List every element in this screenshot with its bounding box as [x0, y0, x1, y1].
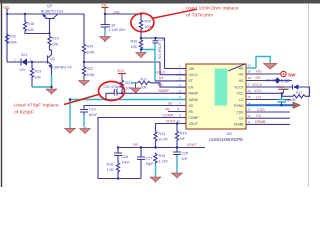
svg-text:11: 11: [248, 120, 251, 124]
svg-text:HB: HB: [239, 66, 244, 70]
svg-text:15: 15: [248, 95, 252, 99]
svg-text:Q2: Q2: [50, 57, 55, 61]
svg-text:VCC: VCC: [276, 85, 284, 89]
svg-text:of 787Kohm: of 787Kohm: [186, 13, 213, 19]
svg-text:CSG: CSG: [257, 108, 265, 112]
svg-text:R20: R20: [9, 35, 16, 39]
svg-text:10nF: 10nF: [122, 161, 131, 165]
svg-text:10K: 10K: [131, 45, 138, 49]
svg-text:EN: EN: [158, 83, 163, 87]
svg-text:VIN: VIN: [189, 67, 195, 71]
svg-text:C25: C25: [182, 152, 189, 156]
svg-text:BC857CLT1G: BC857CLT1G: [41, 10, 64, 14]
svg-text:10.7K: 10.7K: [159, 138, 169, 142]
svg-text:R30: R30: [131, 40, 138, 44]
svg-text:R15: R15: [159, 154, 166, 158]
svg-text:RAMP: RAMP: [159, 89, 170, 93]
svg-text:R29: R29: [145, 20, 152, 24]
svg-text:SW: SW: [288, 72, 296, 77]
svg-text:HO: HO: [239, 72, 244, 76]
svg-text:COMP: COMP: [163, 113, 174, 117]
svg-text:VOUT: VOUT: [166, 119, 177, 123]
svg-text:1nF: 1nF: [182, 157, 189, 161]
svg-text:17: 17: [248, 83, 252, 87]
svg-text:20: 20: [248, 64, 252, 68]
svg-text:C26: C26: [122, 155, 129, 159]
svg-text:of 820pF: of 820pF: [14, 109, 34, 115]
svg-text:Used 470pF inplace: Used 470pF inplace: [14, 103, 59, 109]
svg-text:VCCX: VCCX: [234, 85, 244, 89]
svg-text:AGND: AGND: [189, 98, 199, 102]
svg-text:12: 12: [248, 114, 252, 118]
svg-text:D8 BAS16-T1F: D8 BAS16-T1F: [266, 78, 291, 82]
svg-text:10K: 10K: [52, 43, 59, 47]
svg-text:UVLO: UVLO: [156, 70, 166, 74]
svg-text:R19: R19: [52, 37, 59, 41]
svg-text:R17: R17: [296, 91, 303, 95]
svg-text:CSG: CSG: [236, 110, 244, 114]
svg-text:Used 100KOhm inplace: Used 100KOhm inplace: [186, 5, 239, 11]
svg-text:82nF: 82nF: [89, 113, 98, 117]
svg-text:LM25116MHN0PB: LM25116MHN0PB: [209, 137, 243, 142]
svg-text:VOUT: VOUT: [187, 143, 198, 147]
svg-text:VOUT: VOUT: [189, 122, 198, 126]
svg-text:18: 18: [248, 76, 252, 80]
svg-text:C27: C27: [146, 157, 153, 161]
svg-text:RT: RT: [189, 79, 193, 83]
svg-text:R23: R23: [35, 70, 42, 74]
svg-text:EN: EN: [189, 85, 194, 89]
svg-text:CS: CS: [239, 117, 244, 121]
svg-text:R24: R24: [87, 45, 94, 49]
svg-text:10K: 10K: [141, 85, 148, 89]
svg-text:Z01: Z01: [21, 53, 27, 57]
svg-text:RT: RT: [159, 77, 165, 81]
svg-text:C22 470pF: C22 470pF: [104, 85, 123, 89]
svg-text:1uF: 1uF: [285, 98, 292, 102]
svg-text:FB: FB: [165, 107, 170, 111]
svg-text:COMP: COMP: [189, 116, 200, 120]
svg-text:R14: R14: [180, 132, 187, 136]
svg-text:SS: SS: [168, 101, 173, 105]
svg-text:R16: R16: [107, 163, 114, 167]
svg-text:19: 19: [248, 70, 252, 74]
svg-text:RAMP: RAMP: [189, 92, 199, 96]
svg-text:LO: LO: [239, 98, 244, 102]
svg-text:Q3: Q3: [47, 4, 52, 8]
svg-text:R18: R18: [28, 22, 35, 26]
svg-text:100k: 100k: [87, 73, 95, 77]
svg-text:2.2uF 50V: 2.2uF 50V: [109, 28, 126, 32]
svg-text:PGND: PGND: [234, 104, 244, 108]
svg-text:VCCX: VCCX: [252, 83, 263, 87]
svg-text:HS: HS: [256, 76, 262, 80]
svg-text:UVLO: UVLO: [189, 73, 198, 77]
svg-text:100k: 100k: [9, 41, 17, 45]
svg-text:R22: R22: [87, 67, 94, 71]
svg-text:33pF: 33pF: [146, 162, 155, 166]
svg-text:10K: 10K: [28, 28, 35, 32]
svg-text:100k: 100k: [87, 51, 95, 55]
svg-text:VCC: VCC: [237, 92, 245, 96]
svg-text:R13: R13: [159, 132, 166, 136]
svg-text:LO: LO: [256, 95, 261, 99]
svg-text:10K: 10K: [35, 76, 42, 80]
svg-text:470pF 1%: 470pF 1%: [157, 43, 161, 60]
svg-text:C14: C14: [89, 108, 96, 112]
svg-text:VCC: VCC: [254, 89, 262, 93]
svg-text:HS: HS: [239, 79, 244, 83]
svg-text:FB: FB: [133, 143, 138, 147]
svg-text:DEMB: DEMB: [255, 120, 266, 124]
svg-text:CS: CS: [256, 114, 262, 118]
svg-text:13: 13: [248, 108, 252, 112]
svg-text:1.21K: 1.21K: [159, 160, 169, 164]
svg-text:HO: HO: [256, 70, 262, 74]
svg-text:BC847BS-T-F: BC847BS-T-F: [50, 66, 73, 70]
svg-text:NF: NF: [180, 137, 186, 141]
svg-text:1.0K: 1.0K: [107, 168, 115, 172]
svg-text:12V: 12V: [19, 68, 26, 72]
svg-text:16: 16: [248, 89, 252, 93]
svg-text:DEMB: DEMB: [234, 123, 244, 127]
svg-text:VCC: VCC: [117, 69, 125, 73]
svg-text:VDD: VDD: [3, 5, 10, 9]
svg-text:U3: U3: [227, 131, 233, 136]
